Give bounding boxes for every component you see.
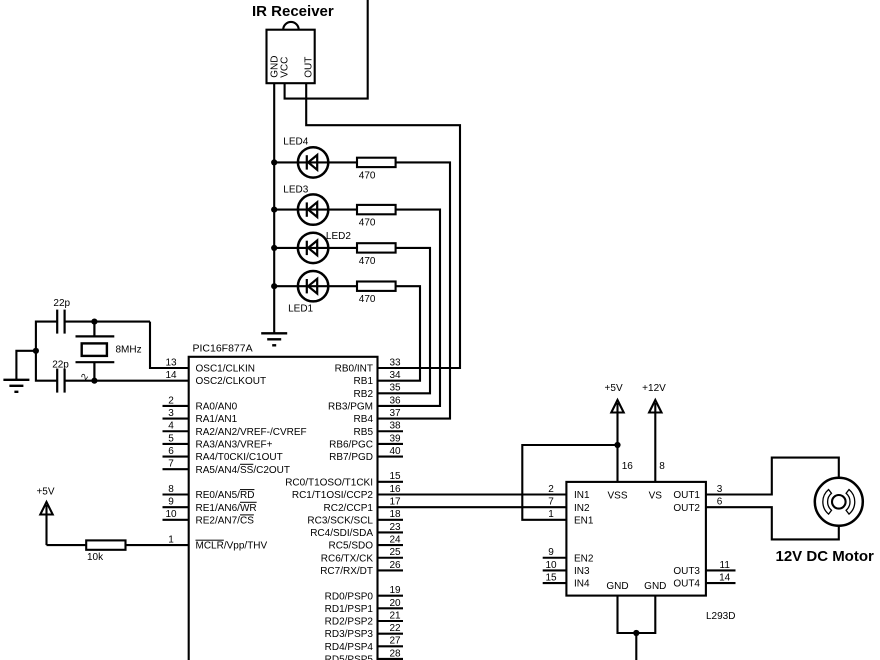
wire bus to LED1 anode/resistor — [274, 285, 357, 287]
PIC pin 19 RD0/PSP0 — [325, 585, 403, 602]
wire bus to LED4 anode/resistor — [274, 161, 357, 163]
wire left bus (caps common) — [36, 322, 57, 381]
svg-text:9: 9 — [168, 497, 174, 508]
svg-text:+5V: +5V — [605, 383, 623, 394]
svg-text:37: 37 — [389, 408, 401, 419]
svg-text:LED4: LED4 — [283, 137, 308, 148]
svg-text:RB0/INT: RB0/INT — [335, 364, 373, 375]
junction on GND bus at LED1 — [271, 283, 277, 289]
svg-text:14: 14 — [719, 572, 731, 583]
PIC pin 37 RB4 — [354, 408, 401, 425]
svg-text:470: 470 — [359, 294, 376, 305]
PIC pin 35 RB2 — [354, 383, 401, 400]
svg-text:10: 10 — [165, 509, 177, 520]
PIC pin 3 RA1/AN1 — [163, 408, 238, 425]
svg-text:RD2/PSP2: RD2/PSP2 — [325, 617, 374, 628]
svg-text:3: 3 — [717, 484, 723, 495]
svg-text:28: 28 — [389, 648, 401, 659]
svg-text:RB3/PGM: RB3/PGM — [328, 402, 373, 413]
svg-text:RC2/CCP1: RC2/CCP1 — [324, 503, 374, 514]
svg-text:34: 34 — [389, 370, 401, 381]
svg-text:10k: 10k — [87, 552, 104, 563]
svg-text:13: 13 — [165, 357, 177, 368]
ground symbol (crystal) — [3, 380, 29, 392]
svg-text:RD0/PSP0: RD0/PSP0 — [325, 591, 374, 602]
svg-text:7: 7 — [548, 497, 554, 508]
junction bus/ground tee — [33, 348, 39, 354]
svg-text:2: 2 — [168, 395, 174, 406]
svg-text:22p: 22p — [53, 298, 70, 309]
svg-text:OSC2/CLKOUT: OSC2/CLKOUT — [196, 376, 267, 387]
svg-text:RC5/SDO: RC5/SDO — [329, 541, 374, 552]
svg-text:VCC: VCC — [279, 57, 290, 78]
LED LED2 — [298, 233, 328, 263]
wire OUT1 to motor + terminal — [706, 458, 839, 495]
PIC pin 39 RB6/PGC — [329, 433, 403, 450]
L293D pin 15 IN4 — [543, 572, 590, 589]
svg-text:470: 470 — [359, 256, 376, 267]
svg-text:470: 470 — [359, 218, 376, 229]
L293D pin 11 OUT3 label — [673, 560, 735, 577]
svg-text:2: 2 — [548, 484, 554, 495]
microcontroller PIC16F877A U1 — [189, 343, 378, 660]
svg-text:35: 35 — [389, 383, 401, 394]
junction on GND bus at LED4 — [271, 159, 277, 165]
svg-text:RB2: RB2 — [354, 389, 374, 400]
PIC pin 34 RB1 — [354, 370, 401, 387]
PIC pin 17 RC2/CCP1 — [324, 497, 401, 514]
svg-text:11: 11 — [720, 560, 731, 571]
svg-text:RD3/PSP3: RD3/PSP3 — [325, 629, 374, 640]
svg-text:5: 5 — [168, 433, 174, 444]
PIC pin 24 RC5/SDO — [329, 535, 403, 552]
PIC pin 22 RD3/PSP3 — [325, 623, 403, 640]
svg-text:16: 16 — [622, 461, 634, 472]
wire LED2 resistor to PIC pin — [378, 248, 431, 393]
wire LED3 resistor to PIC pin — [378, 210, 441, 406]
svg-text:RA0/AN0: RA0/AN0 — [196, 402, 238, 413]
svg-text:RA1/AN1: RA1/AN1 — [196, 414, 238, 425]
PIC pin 9 RE1/AN6/WR — [163, 497, 257, 514]
svg-text:7: 7 — [168, 459, 174, 470]
resistor 470 for LED2 — [357, 243, 396, 252]
svg-text:+5V: +5V — [36, 487, 54, 498]
LED LED4 — [298, 147, 328, 177]
wire 10k to PIC pin 1 MCLR — [126, 544, 189, 546]
PIC pin 38 RB5 — [354, 421, 403, 438]
svg-text:RC1/T1OSI/CCP2: RC1/T1OSI/CCP2 — [292, 490, 374, 501]
PIC pin 8 RE0/AN5/RD — [163, 484, 255, 501]
PIC pin 14 OSC2/CLKOUT — [165, 370, 266, 387]
wire bus to LED3 anode/resistor — [274, 209, 357, 211]
svg-text:17: 17 — [389, 497, 401, 508]
svg-text:14: 14 — [165, 370, 177, 381]
capacitor 22p C1 (top) — [57, 310, 64, 334]
svg-text:25: 25 — [389, 547, 401, 558]
power +12V (L293D VS) — [642, 383, 666, 482]
PIC pin 23 RC4/SDI/SDA — [310, 522, 403, 539]
wire PIC RC2 pin17 to L293D IN2 — [378, 506, 567, 508]
svg-text:OUT3: OUT3 — [673, 566, 700, 577]
L293D pin 2 IN1 — [548, 484, 590, 501]
power +5V (L293D VSS) — [605, 383, 624, 482]
svg-text:+12V: +12V — [642, 383, 666, 394]
svg-text:PIC16F877A: PIC16F877A — [193, 343, 253, 355]
svg-text:3: 3 — [168, 408, 174, 419]
svg-text:22: 22 — [389, 623, 401, 634]
svg-text:33: 33 — [389, 357, 401, 368]
svg-text:GND: GND — [606, 581, 628, 592]
svg-text:9: 9 — [548, 547, 554, 558]
svg-text:15: 15 — [545, 572, 557, 583]
wire to crystal ground — [16, 351, 36, 380]
svg-text:1: 1 — [168, 535, 174, 546]
wire PIC RC1 pin16 to L293D IN1 — [378, 493, 567, 495]
wire OSC1 node to PIC pin 13 — [150, 322, 189, 368]
L293D pin 9 EN2 — [543, 547, 594, 564]
svg-text:21: 21 — [389, 610, 401, 621]
svg-text:470: 470 — [359, 170, 376, 181]
PIC pin 5 RA3/AN3/VREF+ — [163, 433, 273, 450]
wire L293D GND pins — [618, 596, 656, 633]
L293D pin 7 IN2 — [548, 497, 590, 514]
L293D GND labels — [606, 581, 666, 592]
svg-text:OUT: OUT — [303, 57, 314, 78]
svg-text:RB5: RB5 — [354, 427, 374, 438]
svg-text:RC7/RX/DT: RC7/RX/DT — [320, 566, 373, 577]
L293D pin 1 EN1 — [548, 509, 594, 526]
svg-text:LED1: LED1 — [288, 304, 313, 315]
PIC pin 33 RB0/INT — [335, 357, 401, 374]
junction on GND bus at LED2 — [271, 245, 277, 251]
L293D pin 3 OUT1 label — [673, 484, 722, 501]
svg-text:RD5/PSP5: RD5/PSP5 — [325, 655, 374, 660]
svg-text:MCLR/Vpp/THV: MCLR/Vpp/THV — [196, 541, 268, 552]
PIC pin 16 RC1/T1OSI/CCP2 — [292, 484, 401, 501]
svg-text:RD1/PSP1: RD1/PSP1 — [325, 604, 374, 615]
PIC pin 26 RC7/RX/DT — [320, 560, 403, 577]
svg-text:OSC1/CLKIN: OSC1/CLKIN — [196, 364, 255, 375]
L293D pin 6 OUT2 label — [673, 497, 722, 514]
svg-text:RE1/AN6/WR: RE1/AN6/WR — [196, 503, 257, 514]
motor driver L293D U2 body — [566, 482, 706, 596]
svg-text:L293D: L293D — [706, 611, 735, 622]
svg-text:OUT2: OUT2 — [673, 503, 700, 514]
wire LED1 resistor to PIC pin — [378, 286, 421, 380]
PIC pin 1 MCLR/Vpp/THV — [168, 535, 267, 552]
svg-text:24: 24 — [389, 535, 401, 546]
svg-text:OUT4: OUT4 — [673, 579, 700, 590]
junction on GND bus at LED3 — [271, 207, 277, 213]
ground symbol (LED bus) — [261, 333, 287, 345]
svg-text:22p: 22p — [52, 359, 69, 370]
svg-text:27: 27 — [389, 636, 401, 647]
resistor 470 for LED1 — [357, 282, 396, 291]
svg-text:19: 19 — [389, 585, 401, 596]
PIC pin 10 RE2/AN7/CS — [163, 509, 255, 526]
svg-text:EN1: EN1 — [574, 515, 594, 526]
wire OUT2 to motor - terminal — [706, 507, 839, 539]
svg-text:RD4/PSP4: RD4/PSP4 — [325, 642, 374, 653]
wire LED4 resistor to PIC pin — [378, 162, 451, 418]
capacitor 22p C2 (bottom) — [57, 369, 64, 393]
junction OSC1 node — [91, 319, 97, 325]
LED LED1 — [298, 271, 328, 301]
L293D pin 14 OUT4 label — [673, 572, 735, 589]
PIC pin 25 RC6/TX/CK — [321, 547, 403, 564]
svg-text:LED2: LED2 — [326, 231, 351, 242]
wire GND down — [635, 633, 637, 660]
PIC pin 40 RB7/PGD — [329, 446, 403, 463]
power +5V (MCLR pull-up) — [36, 487, 54, 546]
svg-text:LED3: LED3 — [283, 184, 308, 195]
svg-text:8MHz: 8MHz — [116, 345, 142, 356]
svg-text:6: 6 — [717, 497, 723, 508]
resistor 470 for LED3 — [357, 205, 396, 214]
wire C2 to PIC pin 14 — [65, 380, 189, 382]
PIC pin 15 RC0/T1OSO/T1CKI — [285, 471, 403, 488]
LED LED3 — [298, 194, 328, 224]
svg-text:4: 4 — [168, 421, 174, 432]
wire bus to LED2 anode/resistor — [274, 247, 357, 249]
svg-text:EN2: EN2 — [574, 553, 594, 564]
svg-text:36: 36 — [389, 395, 401, 406]
svg-text:RB1: RB1 — [354, 376, 374, 387]
svg-text:VSS: VSS — [607, 491, 627, 502]
svg-text:15: 15 — [389, 471, 401, 482]
svg-text:IN4: IN4 — [574, 579, 590, 590]
svg-text:18: 18 — [389, 509, 401, 520]
svg-text:GND: GND — [644, 581, 666, 592]
PIC pin 28 RD5/PSP5 — [325, 648, 403, 660]
wire IR VCC to top supply — [285, 0, 368, 99]
svg-text:RB4: RB4 — [354, 414, 374, 425]
PIC pin 13 OSC1/CLKIN — [165, 357, 255, 374]
svg-text:IN3: IN3 — [574, 566, 590, 577]
junction GND — [633, 630, 639, 636]
svg-text:12V DC Motor: 12V DC Motor — [776, 548, 875, 565]
PIC pin 4 RA2/AN2/VREF-/CVREF — [163, 421, 307, 438]
svg-text:8: 8 — [659, 461, 665, 472]
svg-text:26: 26 — [389, 560, 401, 571]
svg-text:39: 39 — [389, 433, 401, 444]
svg-text:RA5/AN4/SS/C2OUT: RA5/AN4/SS/C2OUT — [196, 465, 290, 476]
crystal X1 — [76, 322, 115, 381]
svg-text:IR Receiver: IR Receiver — [252, 3, 334, 20]
svg-text:IN1: IN1 — [574, 490, 590, 501]
svg-text:RC6/TX/CK: RC6/TX/CK — [321, 553, 374, 564]
PIC pin 21 RD2/PSP2 — [325, 610, 403, 627]
wire IR OUT to PIC RB0/INT pin 33 — [306, 83, 460, 368]
svg-text:RC4/SDI/SDA: RC4/SDI/SDA — [310, 528, 373, 539]
junction OSC2 node — [91, 378, 97, 384]
svg-text:RE0/AN5/RD: RE0/AN5/RD — [196, 490, 255, 501]
svg-text:VS: VS — [649, 491, 663, 502]
PIC pin 36 RB3/PGM — [328, 395, 401, 412]
svg-text:RB6/PGC: RB6/PGC — [329, 440, 373, 451]
PIC pin 2 RA0/AN0 — [163, 395, 238, 412]
wire IR GND / LED cathode bus — [273, 83, 275, 333]
svg-text:RE2/AN7/CS: RE2/AN7/CS — [196, 515, 255, 526]
wire C1 to OSC1 node — [65, 321, 150, 323]
PIC pin 6 RA4/T0CKI/C1OUT — [163, 446, 283, 463]
svg-text:OUT1: OUT1 — [673, 490, 700, 501]
resistor 470 for LED4 — [357, 158, 396, 167]
svg-text:40: 40 — [389, 446, 401, 457]
IR receiver body — [267, 22, 315, 83]
PIC pin 27 RD4/PSP4 — [325, 636, 403, 653]
PIC pin 20 RD1/PSP1 — [325, 598, 403, 615]
svg-text:1: 1 — [548, 509, 554, 520]
svg-text:23: 23 — [389, 522, 401, 533]
svg-text:RB7/PGD: RB7/PGD — [329, 452, 373, 463]
resistor 10k R5 — [86, 540, 125, 549]
svg-text:RA3/AN3/VREF+: RA3/AN3/VREF+ — [196, 440, 273, 451]
svg-text:IN2: IN2 — [574, 503, 590, 514]
svg-text:16: 16 — [389, 484, 401, 495]
PIC pin 7 RA5/AN4/SS/C2OUT — [163, 459, 290, 476]
svg-text:RA4/T0CKI/C1OUT: RA4/T0CKI/C1OUT — [196, 452, 283, 463]
svg-text:20: 20 — [389, 598, 401, 609]
svg-text:10: 10 — [545, 560, 557, 571]
svg-text:8: 8 — [168, 484, 174, 495]
wire +5V to resistor 10k — [47, 544, 87, 546]
svg-text:6: 6 — [168, 446, 174, 457]
svg-text:RC0/T1OSO/T1CKI: RC0/T1OSO/T1CKI — [285, 478, 373, 489]
svg-text:RA2/AN2/VREF-/CVREF: RA2/AN2/VREF-/CVREF — [196, 427, 307, 438]
motor M1 12V DC — [815, 478, 863, 526]
PIC pin 18 RC3/SCK/SCL — [307, 509, 403, 526]
svg-text:38: 38 — [389, 421, 401, 432]
wire EN1 to +5V rail — [522, 445, 617, 520]
svg-text:RC3/SCK/SCL: RC3/SCK/SCL — [307, 515, 373, 526]
junction +5V/EN1/VSS — [614, 442, 620, 448]
L293D pin 10 IN3 — [543, 560, 590, 577]
